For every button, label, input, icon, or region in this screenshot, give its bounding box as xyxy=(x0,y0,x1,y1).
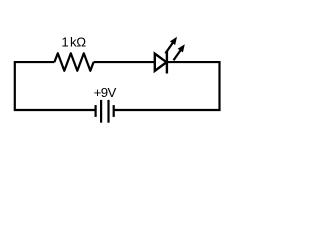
LED cathode bar xyxy=(166,51,168,74)
LED arrow 2 xyxy=(174,44,185,60)
svg-text:1: 1 xyxy=(61,34,68,49)
battery short plate left xyxy=(94,105,96,117)
LED arrow 1 xyxy=(165,37,177,54)
wire: resistor right lead to LED anode xyxy=(94,61,155,63)
wire: top-left run from resistor to corner, down left side, along bottom to battery negative plate xyxy=(15,62,96,110)
battery short plate right xyxy=(113,105,115,117)
battery B1 xyxy=(96,100,114,123)
svg-text:+9V: +9V xyxy=(94,85,117,100)
battery tall plate right xyxy=(107,100,109,123)
LED D1 triangle xyxy=(155,54,167,71)
svg-text:kΩ: kΩ xyxy=(70,34,86,49)
wire: LED cathode to top-right corner, down right side, along bottom to battery positive plate xyxy=(114,62,220,110)
resistor R1 xyxy=(54,53,93,71)
battery tall plate left xyxy=(100,100,102,123)
